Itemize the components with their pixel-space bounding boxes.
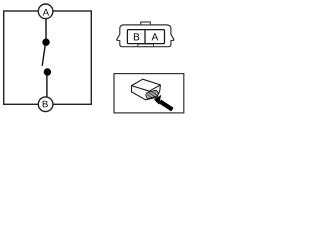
pointer arrow xyxy=(154,95,174,112)
connector J1 body xyxy=(117,22,174,47)
terminal B xyxy=(38,97,53,112)
node junction bottom xyxy=(44,68,51,75)
node junction top xyxy=(42,39,49,46)
connector J1 cavity divider xyxy=(144,30,146,44)
circuit box outline xyxy=(4,11,92,104)
switch SW1 blade xyxy=(42,45,45,66)
connector J1 bottom latch xyxy=(138,44,154,47)
connector 3D view body xyxy=(132,79,161,100)
pin label B xyxy=(134,33,139,40)
pin label A xyxy=(152,33,159,40)
connector J1 cavity outline xyxy=(127,30,164,44)
connector J1 top tab xyxy=(141,22,151,25)
wire xyxy=(46,75,48,97)
wire xyxy=(45,19,47,40)
connector 3D socket xyxy=(145,90,158,99)
inset frame xyxy=(114,74,184,113)
terminal A xyxy=(38,4,53,19)
